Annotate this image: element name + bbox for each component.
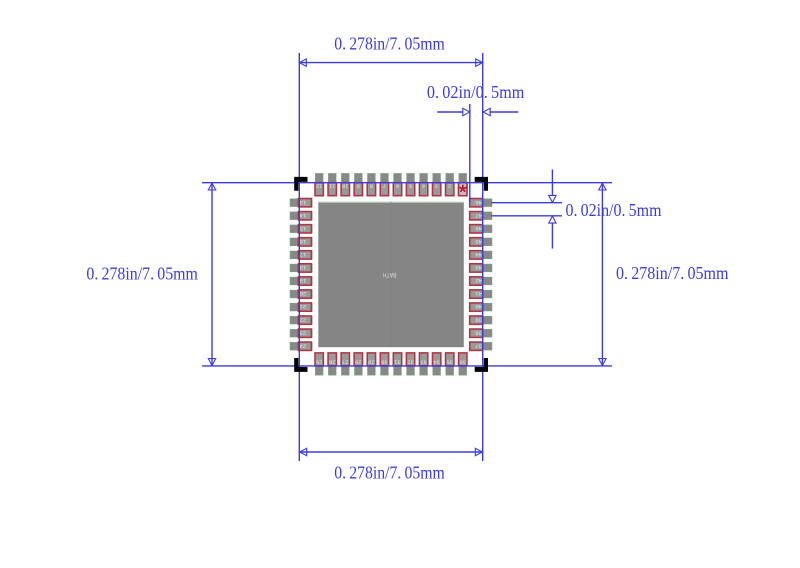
pad pin 5 (top row) (407, 174, 414, 196)
pad pin 3 (top row) (433, 174, 440, 196)
svg-text:33: 33 (420, 358, 427, 364)
svg-text:17: 17 (300, 251, 307, 257)
wire extension line right pad 47 center (491, 215, 562, 217)
svg-text:14: 14 (300, 212, 307, 218)
pad pin 22 (left column) (290, 316, 312, 323)
corner mark top-left (294, 177, 307, 191)
pad pin 42 (right column) (470, 277, 492, 284)
wire extension line left body edge vertical (298, 53, 300, 461)
svg-text:28: 28 (355, 358, 362, 364)
pad pin 37 (right column) (470, 343, 492, 350)
svg-text:0. 278in/7. 05mm: 0. 278in/7. 05mm (616, 263, 729, 283)
svg-text:22: 22 (300, 316, 307, 322)
pad pin 43 (right column) (470, 264, 492, 271)
svg-text:47: 47 (475, 212, 482, 218)
svg-text:38: 38 (475, 329, 482, 335)
svg-text:25: 25 (316, 358, 323, 364)
wire extension line top body edge horizontal (202, 182, 612, 184)
exposed thermal pad EP (318, 202, 464, 348)
pad pin 28 (bottom row) (355, 353, 362, 375)
dimension line bottom 0.278in/7.05mm (299, 451, 482, 453)
pad pin 31 (bottom row) (394, 353, 401, 375)
svg-text:23: 23 (300, 329, 307, 335)
svg-text:41: 41 (475, 290, 482, 296)
pad pin 19 (left column) (290, 277, 312, 284)
svg-text:34: 34 (433, 358, 440, 364)
pad pin 46 (right column) (470, 225, 492, 232)
svg-text:13: 13 (300, 199, 307, 205)
svg-text:31: 31 (394, 358, 401, 364)
pad pin 15 (left column) (290, 225, 312, 232)
svg-text:45: 45 (475, 238, 482, 244)
svg-text:15: 15 (300, 225, 307, 231)
pad pin 2 (top row) (446, 174, 453, 196)
pad pin 41 (right column) (470, 290, 492, 297)
wire extension line right pad 48 center (491, 202, 562, 204)
svg-text:18: 18 (300, 264, 307, 270)
pad pin 36 (bottom row) (459, 353, 466, 375)
svg-text:43: 43 (475, 264, 482, 270)
svg-text:48: 48 (475, 199, 482, 205)
pin 1 marker asterisk (459, 185, 466, 192)
svg-text:21: 21 (300, 303, 307, 309)
svg-text:29: 29 (368, 358, 375, 364)
pad pin 32 (bottom row) (407, 353, 414, 375)
pad pin 26 (bottom row) (329, 353, 336, 375)
pad pin 21 (left column) (290, 303, 312, 310)
pad pin 25 (bottom row) (316, 353, 323, 375)
dimension line top 0.278in/7.05mm (299, 62, 482, 64)
pad pin 35 (bottom row) (446, 353, 453, 375)
svg-text:30: 30 (381, 358, 388, 364)
pad pin 1 (top row) (459, 174, 466, 196)
pad pin 30 (bottom row) (381, 353, 388, 375)
pad pin 16 (left column) (290, 238, 312, 245)
pad pin 9 (top row) (355, 174, 362, 196)
pad pin 17 (left column) (290, 251, 312, 258)
pad pin 10 (top row) (342, 174, 349, 196)
svg-text:26: 26 (329, 358, 336, 364)
pad pin 39 (right column) (470, 316, 492, 323)
wire extension line bottom body edge horizontal (202, 365, 612, 367)
svg-text:32: 32 (407, 358, 414, 364)
pad pin 7 (top row) (381, 174, 388, 196)
wire extension line right body edge vertical (482, 53, 484, 461)
wire extension line pad inner edge (top 0.5mm dim) (469, 104, 471, 203)
pad pin 13 (left column) (290, 199, 312, 206)
dimension line right 0.278in/7.05mm (601, 183, 603, 366)
pad pin 18 (left column) (290, 264, 312, 271)
pad pin 48 (right column) (470, 199, 492, 206)
svg-text:42: 42 (475, 277, 482, 283)
dimension line left 0.278in/7.05mm (211, 183, 213, 366)
pad pin 44 (right column) (470, 251, 492, 258)
svg-text:27: 27 (342, 358, 349, 364)
pad pin 34 (bottom row) (433, 353, 440, 375)
pad pin 29 (bottom row) (368, 353, 375, 375)
corner mark top-right (475, 177, 488, 191)
svg-text:0. 278in/7. 05mm: 0. 278in/7. 05mm (86, 263, 197, 283)
svg-text:16: 16 (300, 238, 307, 244)
svg-text:46: 46 (475, 225, 482, 231)
corner mark bottom-right (475, 358, 488, 372)
svg-text:0. 278in/7. 05mm: 0. 278in/7. 05mm (334, 462, 445, 482)
svg-text:44: 44 (475, 251, 482, 257)
pad pin 12 (top row) (316, 174, 323, 196)
dimension line top 0.02in/0.5mm (437, 111, 463, 113)
svg-text:37: 37 (475, 342, 482, 348)
pad pin 27 (bottom row) (342, 353, 349, 375)
dimension line right 0.02in/0.5mm pitch (551, 170, 553, 197)
svg-text:0. 02in/0. 5mm: 0. 02in/0. 5mm (427, 82, 525, 102)
pad pin 45 (right column) (470, 238, 492, 245)
pad pin 23 (left column) (290, 330, 312, 337)
svg-text:39: 39 (475, 316, 482, 322)
corner mark bottom-left (294, 358, 307, 372)
pad pin 6 (top row) (394, 174, 401, 196)
svg-text:0. 278in/7. 05mm: 0. 278in/7. 05mm (334, 34, 445, 54)
pad pin 8 (top row) (368, 174, 375, 196)
svg-text:20: 20 (300, 290, 307, 296)
svg-text:40: 40 (475, 303, 482, 309)
pad pin 20 (left column) (290, 290, 312, 297)
pad pin 47 (right column) (470, 212, 492, 219)
pad pin 40 (right column) (470, 303, 492, 310)
pad pin 33 (bottom row) (420, 353, 427, 375)
pad pin 4 (top row) (420, 174, 427, 196)
pad pin 38 (right column) (470, 330, 492, 337)
pad pin 11 (top row) (329, 174, 336, 196)
svg-text:35: 35 (446, 358, 453, 364)
pad pin 24 (left column) (290, 343, 312, 350)
svg-text:19: 19 (300, 277, 307, 283)
pad pin 14 (left column) (290, 212, 312, 219)
svg-text:BATH: BATH (383, 271, 397, 278)
svg-text:0. 02in/0. 5mm: 0. 02in/0. 5mm (566, 200, 662, 220)
svg-text:24: 24 (300, 342, 307, 348)
svg-text:36: 36 (459, 358, 466, 364)
